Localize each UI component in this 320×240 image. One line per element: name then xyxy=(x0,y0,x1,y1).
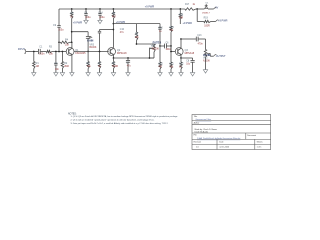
svg-text:Revision: Revision xyxy=(194,141,201,143)
wire pot bottom to ground xyxy=(205,58,207,70)
svg-text:R18: R18 xyxy=(179,14,184,16)
junction rail at R15 drop xyxy=(170,8,172,10)
svg-text:C13: C13 xyxy=(197,35,202,37)
junction GAIN tap on +9 wire xyxy=(71,31,73,33)
svg-text:4-Oct-2020: 4-Oct-2020 xyxy=(219,146,229,149)
ground R12 xyxy=(179,73,183,76)
svg-text:File: File xyxy=(194,135,197,137)
wire emitter bus to filter pot xyxy=(114,57,155,59)
resistor R11 (divider bottom) xyxy=(170,46,172,62)
capacitor C1 (input coupling) xyxy=(37,49,39,54)
ground R2 xyxy=(60,73,64,76)
svg-text:10n: 10n xyxy=(55,68,60,71)
svg-text:Sheets: Sheets xyxy=(257,140,263,143)
resistor R19 (series to +9 PWR) xyxy=(204,20,211,22)
junction Q3 base divider xyxy=(170,45,172,47)
wiper arrow link xyxy=(159,46,161,48)
transistor Q2 xyxy=(108,48,116,56)
capacitor C13 (output coupling) xyxy=(195,37,197,42)
potentiometer VR2 LEVEL xyxy=(204,50,206,58)
svg-text:1M: 1M xyxy=(36,65,39,68)
svg-text:Document: Document xyxy=(247,134,256,137)
capacitor C8 (Q3 emitter bypass) xyxy=(181,57,193,59)
wire Q3 emitter xyxy=(180,55,182,58)
svg-text:A100K: A100K xyxy=(203,60,210,63)
resistor R1 (input shunt) xyxy=(33,52,35,62)
ground R1 xyxy=(32,73,36,76)
svg-text:4k7: 4k7 xyxy=(112,15,117,18)
svg-text:B100K: B100K xyxy=(152,49,159,51)
wire Q1 emitter to ground xyxy=(71,55,73,73)
capacitor C14 (rail decoupling) xyxy=(99,9,101,13)
junction C2 tap xyxy=(55,51,57,53)
svg-text:VR3: VR3 xyxy=(90,44,95,46)
svg-text:Made by: Chuck D. Bones: Made by: Chuck D. Bones xyxy=(195,129,218,131)
svg-text:MPSA18: MPSA18 xyxy=(185,52,195,55)
ground C2 xyxy=(54,73,58,76)
svg-text:Death By Audio: Death By Audio xyxy=(195,131,208,134)
resistor R5b (shunt at gain node) xyxy=(87,52,89,62)
junction C7 tap xyxy=(127,57,129,59)
ground C8 xyxy=(190,73,194,76)
resistor R3 (series) xyxy=(46,50,51,52)
svg-text:R10: R10 xyxy=(159,63,164,65)
wire to 9V net flag xyxy=(208,8,214,10)
junction rail at R5 drop xyxy=(71,8,73,10)
junction R2 tap xyxy=(62,51,64,53)
svg-text:1 of 1: 1 of 1 xyxy=(257,147,262,149)
potentiometer VR3 GAIN xyxy=(87,32,89,37)
resistor R6 (rail drop to +9VA sub-rail) xyxy=(112,9,114,12)
svg-text:+9 PWR: +9 PWR xyxy=(218,20,228,23)
capacitor C10 (collector-base feedback) xyxy=(100,29,114,31)
capacitor C12 (+9VA decoupling) xyxy=(159,24,161,28)
wire GAIN node to Q2 base xyxy=(65,51,67,53)
junction Q3 collector xyxy=(180,38,182,40)
svg-text:2M2: 2M2 xyxy=(64,65,69,68)
wire left rail drop to C9 xyxy=(58,9,60,25)
junction rail at C14 xyxy=(99,8,101,10)
junction C10 feedback tap xyxy=(113,29,115,31)
svg-text:100n: 100n xyxy=(166,49,172,51)
svg-text:MPSA18: MPSA18 xyxy=(117,52,127,55)
svg-text:3. Gain pot taper mod R=1k C=2: 3. Gain pot taper mod R=1k C=2u2, a smal… xyxy=(71,122,169,125)
capacitor C7 (emitter bypass) xyxy=(127,58,129,60)
capacitor C9 (series, left drop) xyxy=(57,25,60,27)
resistor R9 (filter feed) xyxy=(136,24,138,32)
resistor R18 (stub to +9 PWR) xyxy=(179,9,181,13)
wire C1 to R3 xyxy=(41,51,47,53)
svg-text:B100K: B100K xyxy=(90,47,97,49)
resistor R7 (base shunt) xyxy=(99,52,101,62)
svg-text:100u: 100u xyxy=(99,16,105,19)
wire to GAIN network xyxy=(72,31,88,33)
svg-text:Author: Author xyxy=(194,122,200,125)
wire top +9V rail xyxy=(59,8,185,10)
svg-text:KSC1845: KSC1845 xyxy=(75,52,86,55)
wire base tap to Q3 xyxy=(170,46,172,52)
transistor Q3 xyxy=(175,48,183,56)
svg-text:R11: R11 xyxy=(170,63,175,65)
junction base tap xyxy=(170,51,172,53)
wire R9 to pot top xyxy=(137,43,155,45)
junction rail at R18 stub xyxy=(179,8,181,10)
svg-text:100R: 100R xyxy=(204,25,210,27)
svg-text:1.0: 1.0 xyxy=(196,147,199,149)
svg-text:+9 PWR: +9 PWR xyxy=(116,21,126,24)
wire C13 to level pot xyxy=(198,38,205,40)
junction GAIN output node xyxy=(87,51,89,53)
junction Q2 base node xyxy=(99,51,101,53)
svg-text:VR1: VR1 xyxy=(151,46,156,48)
svg-text:+9 PWR: +9 PWR xyxy=(145,6,155,9)
wire C6 to divider xyxy=(166,45,171,47)
svg-text:470n: 470n xyxy=(198,44,204,46)
resistor R4 (horizontal bias feed) xyxy=(59,41,61,43)
title block frame xyxy=(192,115,271,150)
junction bias feed tap xyxy=(58,51,60,53)
ground R10 xyxy=(158,73,162,76)
svg-text:+9 PWR: +9 PWR xyxy=(183,22,193,25)
svg-text:D:\AA_Pedals\Death by Audio Ge: D:\AA_Pedals\Death by Audio Germanium Fi… xyxy=(197,137,241,140)
svg-text:OUTPUT: OUTPUT xyxy=(216,55,226,58)
diode D1 (polarity protection) xyxy=(205,6,208,8)
potentiometer VR1 FILTER xyxy=(153,44,155,52)
ground R7 xyxy=(97,73,101,76)
resistor R12 (Q3 emitter) xyxy=(180,58,182,62)
junction rail at C4 xyxy=(85,8,87,10)
junction Q3 emitter node xyxy=(180,57,182,59)
wire input xyxy=(26,51,38,53)
svg-text:Germanium Filter: Germanium Filter xyxy=(195,118,211,121)
wire down from rail end xyxy=(196,9,198,22)
ground R11 xyxy=(169,73,173,76)
svg-text:R15: R15 xyxy=(170,27,175,29)
resistor R5 (rail drop to +9 PWR node) xyxy=(71,9,73,12)
wire bias vertical link xyxy=(58,42,60,51)
wire Q3 collector riser xyxy=(180,39,182,48)
svg-text:NOTES:: NOTES: xyxy=(68,113,77,115)
resistor R8 (Q2 emitter) xyxy=(113,58,115,62)
transistor Q1 xyxy=(66,48,74,56)
ground R8 xyxy=(111,73,115,76)
ground C7 xyxy=(126,73,130,76)
wire R3 to Q1 base xyxy=(52,51,66,53)
svg-text:10R: 10R xyxy=(179,17,184,19)
resistor R10 (shunt) xyxy=(159,48,161,62)
junction rail at R6 drop xyxy=(113,8,115,10)
junction C6 chain left xyxy=(159,45,161,47)
junction rail right end xyxy=(196,8,198,10)
svg-text:100R: 100R xyxy=(112,65,118,68)
wire pot bottom xyxy=(153,52,155,58)
wire wiper to output xyxy=(210,55,213,57)
junction pot wiper to bus xyxy=(149,57,151,59)
junction sub-rail xyxy=(113,23,115,25)
svg-text:9V: 9V xyxy=(215,7,218,10)
capacitor C6 (coupling to Q3) xyxy=(160,45,165,47)
ground VR2 xyxy=(203,70,207,73)
svg-text:R19: R19 xyxy=(204,18,209,20)
svg-text:2. Q1 & Q4 are modeled “upside: 2. Q1 & Q4 are modeled “upside-down” ope… xyxy=(71,119,155,122)
wire Q1 collector riser xyxy=(71,42,73,48)
resistor R15 (bias divider top) xyxy=(170,9,172,26)
ground Q1 emitter xyxy=(70,73,74,76)
junction Q2 emitter node xyxy=(113,57,115,59)
svg-text:100n: 100n xyxy=(39,54,45,56)
svg-text:C12: C12 xyxy=(158,27,163,29)
resistor R17 (series in rail) xyxy=(185,8,196,10)
svg-text:R12: R12 xyxy=(179,63,184,65)
junction R9 bottom xyxy=(136,43,138,45)
svg-text:Title: Title xyxy=(194,115,198,118)
wire to 9V port xyxy=(197,8,204,10)
svg-text:+9 PWR: +9 PWR xyxy=(73,22,83,25)
svg-text:1. Q2 & Q3 are Fairchild KSC18: 1. Q2 & Q3 are Fairchild KSC1845FTA, low… xyxy=(71,115,179,118)
junction node R4 left xyxy=(58,41,60,43)
wire Q2 emitter xyxy=(113,55,115,58)
svg-text:GAIN: GAIN xyxy=(87,40,93,43)
svg-text:C10: C10 xyxy=(120,29,125,31)
junction R5/R4/Q1 collector xyxy=(71,41,73,43)
wire +9VA sub-rail xyxy=(113,23,160,25)
capacitor C4 (rail decoupling) xyxy=(85,9,87,13)
wire output line xyxy=(181,38,196,40)
wire R19 to flag xyxy=(211,21,216,23)
svg-text:100u: 100u xyxy=(85,16,91,19)
svg-text:C14: C14 xyxy=(98,12,103,15)
capacitor C2 (shunt) xyxy=(55,52,57,64)
ground R5b xyxy=(86,73,90,76)
svg-text:Date: Date xyxy=(219,140,223,143)
junction R1 tap xyxy=(33,51,35,53)
wire Q2 collector riser xyxy=(112,24,114,48)
svg-text:100u: 100u xyxy=(58,29,64,32)
resistor R2 (shunt) xyxy=(61,52,63,62)
svg-text:1N5817: 1N5817 xyxy=(202,13,210,15)
